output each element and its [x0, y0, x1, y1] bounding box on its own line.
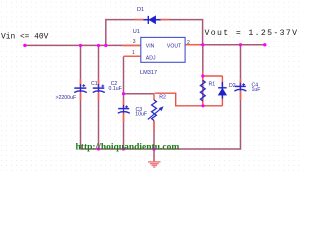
svg-text:10uF: 10uF — [135, 112, 147, 118]
potentiometer R2 — [148, 100, 164, 121]
svg-text:D2: D2 — [229, 83, 236, 89]
svg-text:LM317: LM317 — [140, 70, 157, 76]
svg-text:D1: D1 — [137, 7, 144, 13]
wire R2 bottom — [153, 121, 155, 150]
junction C2 bottom — [97, 147, 100, 150]
pin R2 bottom — [153, 121, 155, 132]
svg-text:VIN: VIN — [146, 43, 155, 49]
svg-text:Vin <= 40V: Vin <= 40V — [1, 33, 49, 42]
pin C4 bottom — [240, 91, 242, 100]
svg-text:ADJ: ADJ — [146, 56, 156, 62]
svg-text:VOUT: VOUT — [167, 43, 182, 49]
op-amp U1 regulator box — [141, 37, 185, 62]
wire output rail — [185, 44, 264, 46]
wire R1 to D2 jog — [203, 75, 223, 77]
svg-text:http://hoiquandientu.com: http://hoiquandientu.com — [76, 143, 180, 153]
resistor R1 — [200, 80, 205, 101]
capacitor C1 symbol — [74, 84, 87, 93]
svg-text:1: 1 — [132, 50, 135, 56]
capacitor C4 symbol — [234, 83, 246, 91]
svg-text:>2200uF: >2200uF — [56, 95, 77, 101]
svg-text:U1: U1 — [133, 29, 140, 35]
junction D1 branch — [104, 44, 107, 47]
pin D1 left — [135, 19, 144, 21]
wire ground rail left — [81, 148, 155, 150]
junction output rail end — [263, 43, 266, 46]
pin C1 bottom — [80, 93, 82, 101]
capacitor C2 symbol — [93, 84, 105, 93]
svg-text:R2: R2 — [159, 95, 166, 101]
pin U1 ADJ stub — [124, 55, 142, 57]
junction ground — [152, 148, 155, 151]
capacitor C3 symbol — [118, 105, 130, 113]
wire D1 branch up — [106, 20, 203, 46]
wire input rail — [25, 44, 141, 46]
wire C4 drop — [154, 45, 241, 162]
pin C1 top — [80, 79, 82, 88]
ground — [148, 162, 160, 167]
junction R1 bottom — [201, 104, 204, 107]
junction C2 top — [97, 44, 100, 47]
junction ADJ node — [122, 92, 125, 95]
diode D2 — [218, 82, 226, 99]
pin R1 top — [202, 71, 204, 80]
wire cap C2 drop — [98, 46, 100, 150]
wire D2 vertical — [221, 76, 223, 106]
pin C3 top — [123, 100, 125, 108]
svg-text:C1: C1 — [91, 81, 98, 87]
junction output D1 — [201, 43, 204, 46]
wire cap C1 drop — [80, 46, 82, 150]
pin U1 VOUT stub — [185, 44, 200, 46]
svg-text:2: 2 — [187, 40, 190, 46]
diode D1 — [144, 16, 161, 24]
pin C2 bottom — [98, 93, 100, 101]
svg-text:0.1uF: 0.1uF — [109, 86, 122, 92]
junction R1 top — [201, 74, 204, 77]
svg-text:3: 3 — [133, 39, 136, 45]
junction input rail end — [23, 44, 26, 47]
pin C3 bottom — [123, 114, 125, 123]
pin U1 VIN stub — [122, 45, 141, 47]
wire R1 feed vertical — [202, 45, 204, 106]
pin C4 top — [240, 79, 242, 86]
wire ADJ vertical — [123, 56, 125, 108]
wire R2 top to R1 bottom jog — [155, 93, 223, 106]
svg-text:R1: R1 — [209, 81, 216, 87]
svg-text:Vout = 1.25-37V: Vout = 1.25-37V — [205, 29, 299, 38]
svg-text:1uF: 1uF — [252, 87, 261, 93]
pin C2 top — [98, 79, 100, 88]
pin D1 right — [161, 19, 170, 21]
pin R1 bottom — [202, 101, 204, 106]
junction C1 top — [79, 44, 82, 47]
pin R2 top — [153, 94, 155, 100]
wire ADJ rail to R2 — [124, 93, 155, 95]
junction C3 bottom — [122, 147, 125, 150]
wire C3 drop lower — [123, 111, 125, 149]
junction C4 top — [239, 43, 242, 46]
